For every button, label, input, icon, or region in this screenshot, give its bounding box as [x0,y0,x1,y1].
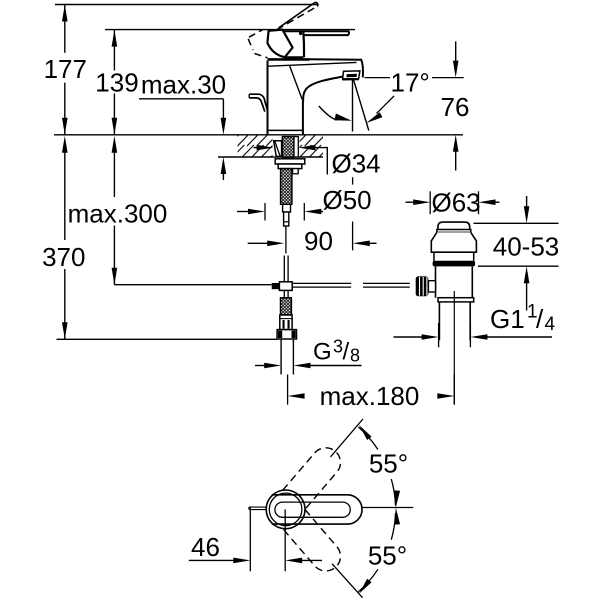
svg-text:max.30: max.30 [141,69,226,99]
svg-text:8: 8 [350,346,360,366]
dimension max.30 callout [139,69,226,180]
dimension Ø50 [237,185,372,221]
pop-up pull rod hook [249,94,267,111]
cap lip [437,230,471,233]
svg-text:139: 139 [95,68,138,98]
17 degree stream line [353,79,368,130]
G3/8 thread tail [280,339,282,375]
faucet base seam [268,129,303,131]
svg-text:370: 370 [42,242,85,272]
svg-text:3: 3 [333,337,343,357]
dimension 46 [189,508,322,572]
G3/8 hex nut [277,330,296,339]
dimension Ø63 [406,188,500,218]
dimension 177 [44,5,87,135]
17 degree vertical reference [352,80,354,132]
svg-text:G: G [313,339,332,366]
faucet body trunk left edge [267,61,269,135]
plan view inner circle [269,493,302,526]
linkage tee block [279,282,292,291]
plan horizontal datum [362,507,413,509]
faucet body cap line [268,58,310,61]
spout interior line [290,66,303,100]
dimension max.180 [288,375,455,412]
waste outlet tube [439,302,470,340]
swivel arc upper [358,427,395,506]
55 degree line lower [332,564,363,598]
shank left wedge [274,141,282,157]
dimension 40-53 [474,196,560,311]
spout underside curve [303,76,344,102]
svg-text:177: 177 [44,54,87,84]
raised lever tip cap [314,2,318,6]
dimension Ø34 [254,145,381,179]
aerator [343,71,360,79]
aerator dark band [346,74,357,78]
17 degree horizontal datum [365,77,391,79]
plan handle outer stadium [272,495,362,524]
counter hatch left [238,136,273,157]
dimension max.300 [68,136,168,285]
svg-text:Ø50: Ø50 [323,185,372,215]
aerator outlet face [342,78,358,81]
plan view outer circle [266,490,305,529]
pivot pin [299,32,302,35]
svg-text:G1: G1 [490,304,525,334]
waste collar [438,298,474,302]
svg-text:46: 46 [191,532,220,562]
counter top line L3 [54,134,463,136]
svg-text:max.180: max.180 [320,381,420,411]
spout top crease line [268,62,356,66]
dimension G3/8 [255,337,362,369]
faucet body trunk right edge below spout [302,101,304,135]
svg-text:4: 4 [545,314,556,335]
max.300 bottom reference / pop-up rod line [114,284,271,286]
plan handle inner stadium [275,502,350,517]
dimension 90 [248,226,377,256]
waste o-ring band [433,261,476,267]
dimension G1 1/4 [394,302,556,348]
swivel arc lower [358,513,395,592]
raised lever arm solid edge [279,3,314,27]
svg-text:17°: 17° [391,68,430,98]
svg-text:Ø34: Ø34 [332,148,381,178]
faucet lever boss solid [285,31,304,58]
dimension 370 [42,136,85,339]
dimension 76 [441,41,470,170]
svg-text:55°: 55° [368,541,407,571]
counter hatch right [300,136,324,157]
waste knob [416,276,429,296]
flexible supply hose braided upper [281,169,292,205]
spout centerline extension [352,177,354,184]
plan pull rod stub [249,507,267,510]
pop-up vertical rod thin [285,226,287,254]
dashed handle rotated down [283,510,347,577]
reference line L1 top of raised lever [55,4,318,6]
pop-up vertical tube [283,256,285,282]
shank right piece [294,137,298,157]
svg-text:55°: 55° [369,449,408,479]
stream swivel arc [319,106,337,120]
hose lower fitting ribbed [280,315,292,330]
threaded shank [282,137,294,159]
linkage clamp block [272,283,280,289]
spout top edge [310,59,364,77]
dashed boss rotated outline [248,30,267,58]
knob stem [428,281,435,292]
waste body [436,266,473,297]
reference line L2 top of lever [105,29,355,31]
mounting nut [278,164,302,169]
rod guide stub [293,169,299,174]
faucet lever bar [282,31,349,35]
svg-text:Ø63: Ø63 [432,188,481,218]
hose end fitting [283,204,291,212]
waste neck inset [434,252,474,261]
counter bottom line L4 [218,156,323,158]
dashed handle rotated up [283,442,347,509]
braided hose lower [281,298,292,315]
mounting shank white gap [273,136,300,156]
svg-text:40-53: 40-53 [493,231,560,261]
cap flare [431,232,476,252]
lever boss pentagon (raised position) [267,30,292,58]
55 degree line upper [331,419,363,457]
drain centerline [453,291,455,405]
svg-text:76: 76 [441,92,470,122]
pop-up waste cap dome [438,222,470,229]
svg-text:max.300: max.300 [68,199,168,229]
370 bottom reference line [57,338,278,340]
17 degree leader arrow [377,96,395,114]
svg-text:/: / [536,304,544,334]
linkage rod horizontal [292,283,410,287]
raised lever arm dashed edge [277,6,318,29]
dimension 139 [95,30,138,135]
svg-text:90: 90 [304,226,333,256]
tee lower stub [283,290,285,297]
svg-text:/: / [343,339,350,366]
horseshoe washer [275,159,305,164]
